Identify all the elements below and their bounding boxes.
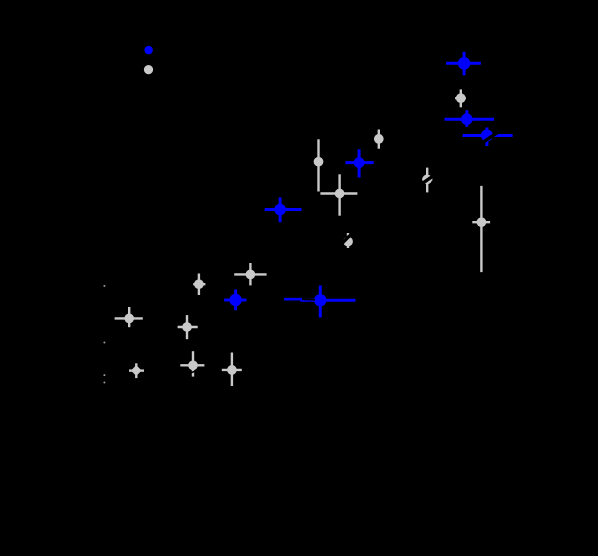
gray point G13 [180,351,204,376]
black dim segment on B6 bar [302,298,315,301]
gray point G3 [422,168,432,193]
gray point G12 (diamond) [129,363,144,378]
gray point G2 [472,186,490,272]
gray point G10 [115,307,143,327]
black notch below G13 [191,371,197,373]
tiny gray dot d3 [103,374,105,376]
gray point G9 [234,263,266,285]
gray point G4 [374,130,384,149]
tiny gray dot d4 [103,382,105,384]
gray point G11 [178,315,198,339]
legend marker blue [144,46,152,54]
gray point G6 [314,139,324,191]
gray point G1 [455,89,466,107]
blue point B7 [224,289,246,310]
blue point B4 [345,149,373,177]
blue point B3 [463,128,513,147]
tiny gray dot d2 [103,342,105,344]
gray point G8 [193,274,205,296]
tiny gray dot d1 [103,285,105,287]
blue point B2 [445,110,495,127]
gray point G7 [343,233,353,248]
blue dash left of B6 [284,298,302,301]
gray point G14 [222,353,242,387]
legend marker gray [144,65,153,74]
blue point B1 [446,52,481,76]
gray point G5 [320,174,357,215]
blue point B6 [301,286,356,318]
black overlay line crossing G7 G3 B3 [331,117,520,255]
blue point B5 [265,197,302,222]
